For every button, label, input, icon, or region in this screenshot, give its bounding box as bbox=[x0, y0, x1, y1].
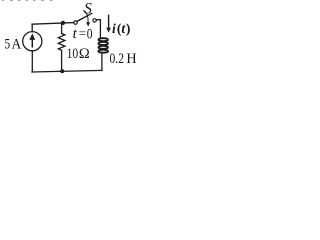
svg-text:t: t bbox=[73, 26, 78, 42]
svg-text:A: A bbox=[12, 37, 23, 53]
svg-text:0: 0 bbox=[87, 25, 93, 42]
svg-text:): ) bbox=[126, 21, 130, 36]
svg-text:H: H bbox=[126, 51, 136, 67]
svg-text:=: = bbox=[79, 26, 86, 41]
svg-text:i: i bbox=[112, 21, 116, 36]
svg-text:Ω: Ω bbox=[79, 46, 90, 62]
svg-text:5: 5 bbox=[4, 35, 10, 52]
svg-text:0.2: 0.2 bbox=[110, 50, 124, 67]
svg-text:10: 10 bbox=[67, 45, 79, 62]
svg-text:S: S bbox=[84, 1, 92, 18]
